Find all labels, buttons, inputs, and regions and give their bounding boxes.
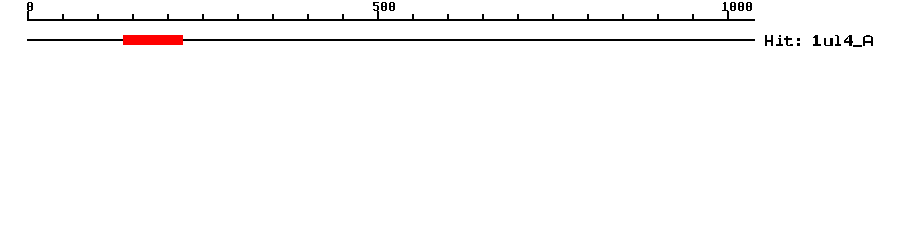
minor tick 650 [482,14,484,21]
minor tick 750 [552,14,554,21]
minor tick 700 [517,14,519,21]
minor tick 900 [657,14,659,21]
ruler label 500 [373,2,395,11]
minor tick 50 [62,14,64,21]
minor tick 300 [237,14,239,21]
minor tick 950 [692,14,694,21]
minor tick 450 [342,14,344,21]
hit label text Hit: 1ul4_A [765,35,873,47]
major tick 0 [27,11,29,21]
ruler label 1000 [722,2,752,11]
hit block (red) [123,35,183,45]
minor tick 150 [132,14,134,21]
minor tick 100 [97,14,99,21]
hit line [27,39,755,41]
major tick 500 [377,11,379,21]
minor tick 200 [167,14,169,21]
minor tick 550 [412,14,414,21]
background [0,0,900,60]
ruler axis line [27,19,755,21]
minor tick 850 [622,14,624,21]
minor tick 600 [447,14,449,21]
minor tick 800 [587,14,589,21]
minor tick 250 [202,14,204,21]
ruler label 0 [27,2,33,11]
minor tick 400 [307,14,309,21]
minor tick 350 [272,14,274,21]
major tick 1000 [727,11,729,21]
